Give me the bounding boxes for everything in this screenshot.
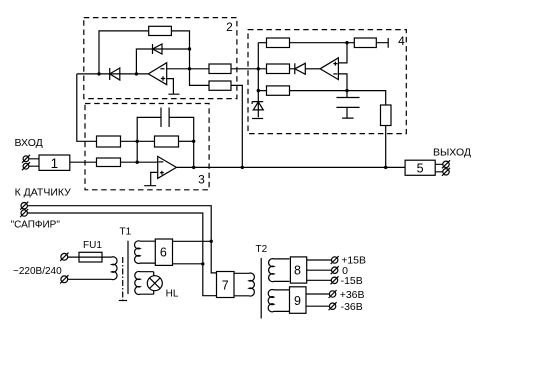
svg-text:К ДАТЧИКУ: К ДАТЧИКУ <box>15 187 72 199</box>
svg-text:Т2: Т2 <box>256 244 268 255</box>
svg-text:ВЫХОД: ВЫХОД <box>433 146 471 158</box>
svg-text:1: 1 <box>51 156 59 171</box>
svg-text:-36В: -36В <box>341 301 363 313</box>
svg-text:HL: HL <box>166 289 179 300</box>
svg-text:-15В: -15В <box>341 275 363 287</box>
svg-text:3: 3 <box>198 173 205 187</box>
svg-text:"САПФИР": "САПФИР" <box>11 220 61 231</box>
svg-text:Т1: Т1 <box>120 227 132 238</box>
svg-text:8: 8 <box>294 264 301 278</box>
svg-text:7: 7 <box>222 278 229 292</box>
svg-text:FU1: FU1 <box>83 240 102 251</box>
svg-text:6: 6 <box>160 245 167 259</box>
svg-text:+36В: +36В <box>340 289 365 301</box>
svg-text:~220В/240: ~220В/240 <box>13 266 62 277</box>
svg-text:9: 9 <box>294 294 301 308</box>
svg-text:ВХОД: ВХОД <box>15 137 43 149</box>
svg-text:4: 4 <box>398 34 405 48</box>
svg-text:2: 2 <box>226 20 233 34</box>
svg-text:5: 5 <box>417 161 424 175</box>
